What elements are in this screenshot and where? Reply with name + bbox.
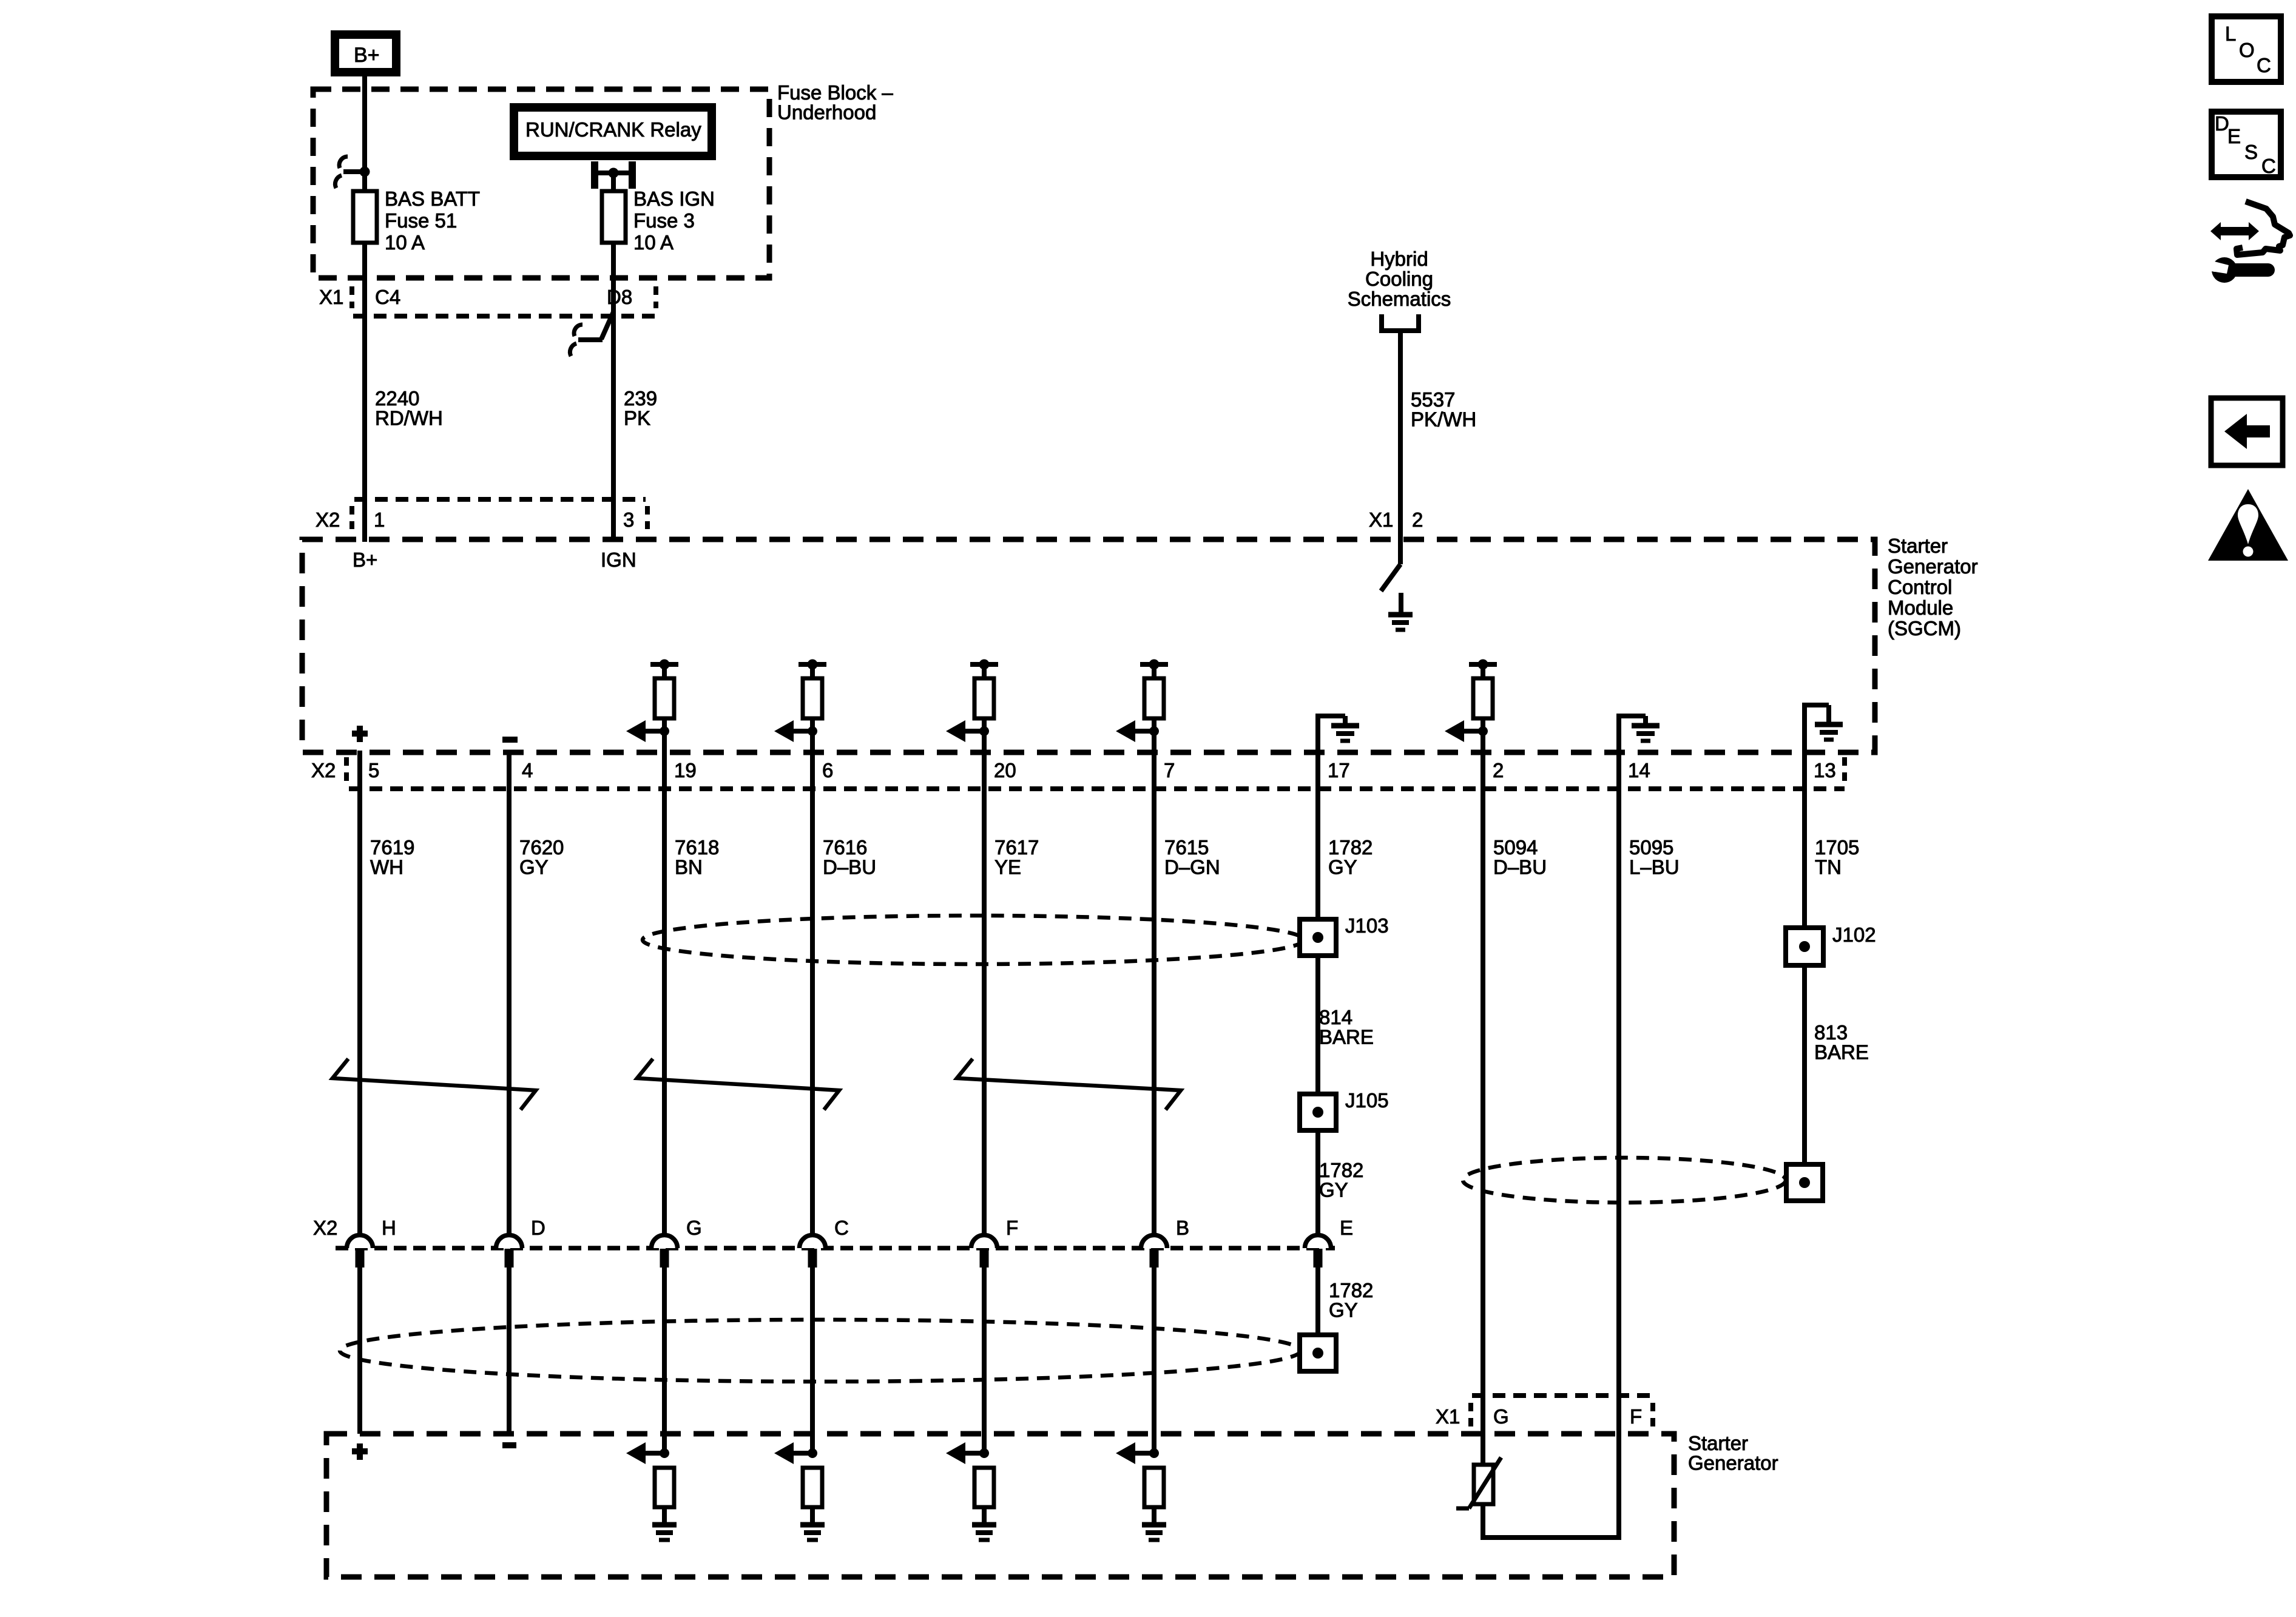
wire D to starter generator -: [507, 1268, 512, 1434]
wire 2240 RD/WH lower segment: [362, 243, 367, 542]
SGCM driver resistor at pin 6: [774, 660, 826, 753]
node B+ (SGCM pin 1): [353, 549, 377, 571]
connector X2 (starter generator) pins H D G C F B E: [313, 1217, 1335, 1248]
wire label 813 BARE: [1814, 1021, 1869, 1064]
svg-text:F: F: [1006, 1217, 1018, 1239]
connector pin B: [1141, 1217, 1190, 1268]
svg-text:Fuse 3: Fuse 3: [633, 209, 695, 232]
wire label 239 PK: [624, 387, 657, 430]
connector pin C: [800, 1217, 849, 1268]
node IGN (SGCM pin 3): [601, 549, 636, 571]
label Starter Generator: [1688, 1432, 1778, 1474]
svg-text:7616: 7616: [823, 836, 867, 859]
wire label 7617 YE: [994, 836, 1039, 879]
wire 813 BARE: [1802, 965, 1807, 1164]
svg-text:7: 7: [1164, 759, 1175, 781]
wire 7619 WH: [357, 751, 362, 1235]
connector pin G: [652, 1217, 702, 1268]
svg-text:2: 2: [1412, 508, 1423, 531]
SGCM driver resistor at pin 20: [946, 660, 998, 753]
wire label 1782 GY: [1328, 836, 1373, 879]
fuse F51 BAS BATT 10 A: [353, 191, 377, 243]
svg-text:G: G: [686, 1217, 702, 1239]
svg-text:S: S: [2244, 141, 2258, 163]
svg-text:G: G: [1493, 1405, 1509, 1428]
svg-text:20: 20: [994, 759, 1016, 781]
label J103: [1345, 914, 1389, 937]
svg-text:Underhood: Underhood: [777, 101, 876, 124]
svg-text:IGN: IGN: [601, 549, 636, 571]
wire 1782 GY (pin E to shield terminal): [1315, 1268, 1320, 1335]
svg-text:X1: X1: [1369, 508, 1393, 531]
wire label 1705 TN: [1815, 836, 1859, 879]
label Fuse Block - Underhood: [777, 81, 893, 124]
svg-text:Starter: Starter: [1888, 535, 1948, 557]
icon electrical repair (arrow + connector + wrench): [2207, 201, 2290, 283]
starter generator + terminal: [352, 1443, 368, 1460]
svg-text:H: H: [382, 1217, 396, 1239]
wire 5095 L-BU full run: [1616, 752, 1621, 1540]
SGCM + terminal (pin 5): [352, 726, 368, 742]
svg-text:PK/WH: PK/WH: [1411, 408, 1476, 431]
svg-text:13: 13: [1814, 759, 1836, 781]
svg-text:X2: X2: [316, 508, 340, 531]
splice hook at D8: [570, 312, 613, 356]
svg-text:2: 2: [1493, 759, 1504, 781]
svg-text:X2: X2: [311, 759, 336, 781]
wire B into starter generator: [1152, 1268, 1156, 1453]
svg-text:E: E: [1340, 1217, 1353, 1239]
svg-text:7615: 7615: [1164, 836, 1209, 859]
svg-text:4: 4: [522, 759, 533, 781]
wire label 7615 D-GN: [1164, 836, 1220, 879]
wire 7620 GY: [507, 751, 512, 1235]
svg-text:GY: GY: [519, 856, 549, 879]
splice hook at fuse 51: [335, 157, 370, 188]
SGCM - terminal (pin 4): [502, 737, 518, 743]
svg-text:D–GN: D–GN: [1164, 856, 1220, 879]
wire label 5537 PK/WH: [1411, 388, 1476, 431]
SGCM driver resistor at pin 19: [626, 660, 678, 753]
svg-text:WH: WH: [370, 856, 403, 879]
svg-text:1: 1: [374, 508, 385, 531]
wire H to starter generator +: [357, 1268, 362, 1434]
svg-text:5537: 5537: [1411, 388, 1455, 411]
svg-text:7617: 7617: [994, 836, 1039, 859]
svg-text:F: F: [1630, 1405, 1642, 1428]
SGCM driver resistor at pin 7: [1116, 660, 1168, 753]
shield ellipse (5094/5095) to shield terminal: [1463, 1158, 1786, 1203]
wire label 7619 WH: [370, 836, 414, 879]
wire label 1782 GY: [1319, 1159, 1363, 1201]
wire thermistor to pin F loop: [1481, 1504, 1621, 1540]
wire label 814 BARE: [1319, 1006, 1374, 1048]
connector pin E: [1305, 1217, 1354, 1268]
svg-text:10 A: 10 A: [385, 231, 425, 254]
svg-text:6: 6: [822, 759, 833, 781]
wire label 7618 BN: [675, 836, 719, 879]
SGCM internal ground (pin 13): [1802, 703, 1843, 752]
svg-text:Module: Module: [1888, 596, 1953, 619]
shield ellipse (engine harness) to J103: [643, 916, 1304, 964]
svg-text:10 A: 10 A: [633, 231, 674, 254]
svg-text:7620: 7620: [519, 836, 564, 859]
svg-text:BARE: BARE: [1814, 1041, 1869, 1064]
connector pin D: [496, 1217, 545, 1268]
svg-text:Starter: Starter: [1688, 1432, 1748, 1454]
relay contact terminal bracket: [591, 161, 636, 189]
stator winding / ground at pin B: [1116, 1442, 1166, 1540]
shield ellipse (starter generator harness): [340, 1320, 1301, 1382]
svg-text:813: 813: [1814, 1021, 1848, 1044]
SGCM internal ground (pin 14): [1616, 714, 1660, 752]
stator winding / ground at pin F: [946, 1442, 996, 1540]
svg-text:1705: 1705: [1815, 836, 1859, 859]
wire label 1782 GY (below pin E): [1329, 1279, 1373, 1322]
svg-text:C: C: [2257, 54, 2271, 76]
svg-text:BARE: BARE: [1319, 1026, 1374, 1048]
svg-text:2240: 2240: [375, 387, 419, 410]
label BAS IGN Fuse 3 10 A: [633, 187, 715, 254]
svg-text:YE: YE: [994, 856, 1021, 879]
wire label 5094 D-BU: [1493, 836, 1547, 879]
splice J102: [1786, 928, 1823, 965]
wire label 2240 RD/WH: [375, 387, 443, 430]
wire 239 PK lower segment: [611, 243, 616, 542]
svg-text:Cooling: Cooling: [1365, 268, 1433, 290]
svg-text:C4: C4: [375, 286, 400, 308]
module SGCM dashed box: [302, 539, 1875, 752]
wire G into starter generator: [662, 1268, 667, 1453]
svg-text:D8: D8: [607, 286, 632, 308]
wire 7616 D-BU: [810, 752, 815, 1235]
connector X1 (fuse block) pins C4, D8: [319, 286, 657, 316]
twisted pair symbol wires 7618/7616: [637, 1059, 839, 1110]
svg-text:GY: GY: [1319, 1179, 1348, 1201]
svg-text:814: 814: [1319, 1006, 1352, 1028]
svg-text:Generator: Generator: [1688, 1452, 1778, 1474]
svg-text:19: 19: [674, 759, 697, 781]
wire 5537 PK/WH: [1398, 331, 1403, 542]
svg-text:RUN/CRANK Relay: RUN/CRANK Relay: [525, 118, 701, 141]
label J105: [1345, 1089, 1389, 1112]
label Starter Generator Control Module (SGCM): [1888, 535, 1978, 640]
svg-text:1782: 1782: [1328, 836, 1373, 859]
svg-text:C: C: [834, 1217, 849, 1239]
svg-text:J102: J102: [1832, 923, 1876, 946]
icon DESC: [2212, 112, 2281, 177]
svg-text:B+: B+: [353, 549, 377, 571]
svg-text:GY: GY: [1329, 1299, 1358, 1322]
svg-text:X1: X1: [1436, 1405, 1460, 1428]
wire 7618 BN: [662, 752, 667, 1235]
wire 7617 YE: [982, 752, 987, 1235]
starter generator dashed box: [326, 1434, 1674, 1577]
svg-text:L–BU: L–BU: [1629, 856, 1680, 879]
svg-text:D–BU: D–BU: [1493, 856, 1547, 879]
svg-text:X1: X1: [319, 286, 343, 308]
fuse F3 BAS IGN 10 A: [602, 191, 626, 243]
svg-text:D: D: [531, 1217, 545, 1239]
fuse block underhood dashed box: [313, 89, 769, 278]
stator winding / ground at pin G: [626, 1442, 677, 1540]
icon warning triangle: [2208, 489, 2288, 561]
svg-text:J103: J103: [1345, 914, 1389, 937]
wire 1782 GY (J105 to X2 pin E): [1315, 1130, 1320, 1235]
SGCM driver resistor at pin 2: [1445, 660, 1497, 753]
svg-text:BAS BATT: BAS BATT: [385, 187, 480, 210]
wire F into starter generator: [982, 1268, 987, 1453]
wire label 7616 D-BU: [823, 836, 876, 879]
svg-text:Hybrid: Hybrid: [1370, 248, 1428, 270]
wire 1782 GY (pin 17 to J103): [1315, 752, 1320, 919]
svg-text:X2: X2: [313, 1217, 337, 1239]
connector X2 (SGCM bottom) pins 5 4 19 6 20 7 17 2 14 13: [311, 757, 1845, 789]
svg-text:B+: B+: [354, 44, 380, 67]
svg-text:17: 17: [1328, 759, 1350, 781]
relay U1 RUN/CRANK Relay: [514, 107, 712, 156]
svg-text:L: L: [2225, 22, 2236, 45]
svg-text:BN: BN: [675, 856, 703, 879]
svg-text:14: 14: [1628, 759, 1650, 781]
shield terminal box on 1782 GY: [1300, 1335, 1336, 1371]
svg-text:5: 5: [368, 759, 379, 781]
thermistor (temperature sensor): [1456, 1457, 1501, 1508]
svg-text:7619: 7619: [370, 836, 414, 859]
power symbol B+: [335, 35, 396, 72]
svg-text:1782: 1782: [1329, 1279, 1373, 1301]
connector pin H: [347, 1217, 396, 1268]
connector pin F: [971, 1217, 1018, 1268]
svg-text:(SGCM): (SGCM): [1888, 617, 1961, 640]
wire label 7620 GY: [519, 836, 564, 879]
svg-text:7618: 7618: [675, 836, 719, 859]
svg-text:D–BU: D–BU: [823, 856, 876, 879]
icon LOC: [2212, 16, 2281, 82]
off-page connector Hybrid Cooling Schematics: [1348, 248, 1451, 331]
wire 239 PK upper segment: [611, 173, 616, 192]
wire 5094 D-BU full run: [1481, 752, 1485, 1465]
svg-text:3: 3: [623, 508, 634, 531]
splice J105: [1300, 1094, 1336, 1130]
switch to ground inside SGCM: [1381, 539, 1413, 630]
splice J103: [1300, 919, 1336, 956]
svg-text:1782: 1782: [1319, 1159, 1363, 1181]
starter generator - terminal: [502, 1442, 516, 1448]
svg-text:239: 239: [624, 387, 657, 410]
svg-text:RD/WH: RD/WH: [375, 407, 443, 430]
svg-text:BAS IGN: BAS IGN: [633, 187, 715, 210]
svg-text:5095: 5095: [1629, 836, 1673, 859]
svg-text:Generator: Generator: [1888, 555, 1978, 578]
svg-text:O: O: [2239, 39, 2255, 61]
svg-text:Control: Control: [1888, 576, 1952, 598]
wire 7615 D-GN: [1152, 752, 1156, 1235]
stator winding / ground at pin C: [774, 1442, 825, 1540]
wire 2240 RD/WH upper segment: [362, 72, 367, 192]
svg-text:Fuse 51: Fuse 51: [385, 209, 457, 232]
twisted pair symbol wires 7619/7620: [333, 1059, 536, 1110]
svg-text:Schematics: Schematics: [1348, 288, 1451, 310]
svg-text:TN: TN: [1815, 856, 1842, 879]
shield terminal box on 813 BARE: [1786, 1164, 1823, 1201]
connector X1 (SGCM) pin 2: [1369, 508, 1423, 531]
svg-text:E: E: [2227, 125, 2241, 147]
svg-text:PK: PK: [624, 407, 650, 430]
wire label 5095 L-BU: [1629, 836, 1680, 879]
SGCM internal ground (pin 17): [1315, 714, 1359, 752]
label J102: [1832, 923, 1876, 946]
svg-text:GY: GY: [1328, 856, 1357, 879]
wire 1705 TN (pin 13 to J102): [1802, 752, 1807, 928]
connector X2 (SGCM top) pins 1, 3: [316, 499, 647, 531]
svg-text:5094: 5094: [1493, 836, 1538, 859]
wire C into starter generator: [810, 1268, 815, 1453]
connector X1 (starter generator) pins G, F: [1436, 1396, 1653, 1428]
label BAS BATT Fuse 51 10 A: [385, 187, 480, 254]
twisted pair symbol wires 7617/7615: [957, 1059, 1181, 1110]
svg-text:B: B: [1176, 1217, 1189, 1239]
svg-text:J105: J105: [1345, 1089, 1389, 1112]
svg-text:Fuse Block –: Fuse Block –: [777, 81, 893, 104]
svg-text:C: C: [2261, 155, 2276, 177]
icon back arrow: [2211, 398, 2283, 465]
wire 814 BARE: [1315, 956, 1320, 1094]
